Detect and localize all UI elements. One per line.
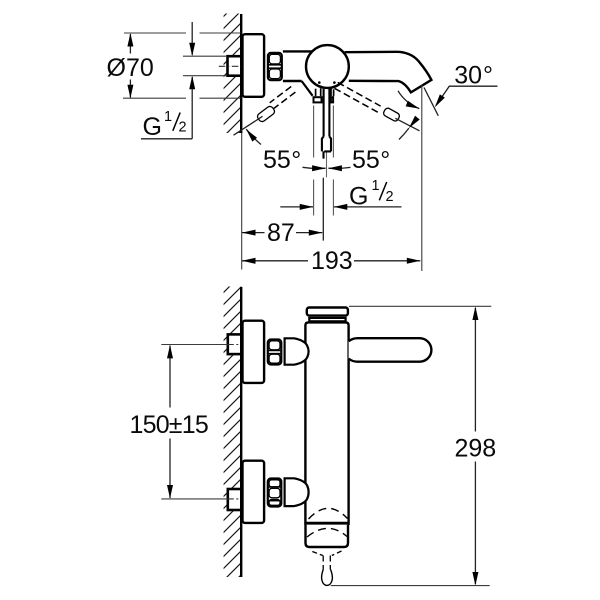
svg-text:193: 193: [311, 247, 353, 275]
pipe edge extension lines: [183, 55, 227, 57]
wall flange top (front view): [243, 321, 265, 383]
svg-text:2: 2: [386, 189, 394, 205]
body/outlet centerline down to 87 dim: [322, 178, 324, 241]
supply pipe bottom (front view): [228, 489, 242, 510]
193 dimension: [242, 247, 420, 275]
lever centerline: [326, 153, 328, 178]
faucet body (top view): [283, 51, 313, 95]
svg-text:87: 87: [267, 219, 295, 247]
svg-text:150±15: 150±15: [130, 411, 208, 439]
svg-text:Ø70: Ø70: [107, 54, 154, 82]
right lever axis extension: [395, 118, 419, 131]
cap lower band: [309, 318, 345, 321]
water drop: [322, 570, 333, 586]
dashed lever rotated right 55deg: [335, 82, 401, 122]
outlet joint thick line: [305, 522, 349, 525]
svg-text:G: G: [143, 113, 162, 141]
outlet extension lines (G 1/2 bottom outlet): [314, 106, 334, 216]
union bell bottom: [285, 478, 309, 506]
wall (hatched) top view: [224, 14, 242, 134]
55deg arc right with arrows: [328, 116, 419, 171]
svg-text:55: 55: [263, 146, 291, 174]
pipe centerline bottom: [227, 498, 241, 500]
svg-text:30: 30: [454, 62, 482, 90]
wall face extension line (to 87/193 dims): [241, 133, 243, 270]
union nut (top view): [267, 53, 282, 80]
87 dimension: [242, 219, 322, 247]
wall flange bottom (front view): [243, 461, 265, 523]
svg-text:°: °: [291, 146, 301, 174]
30deg annotation at spout: [398, 62, 498, 272]
svg-text:55: 55: [352, 146, 380, 174]
lever cap circle: [306, 45, 349, 88]
union bell top: [285, 338, 309, 364]
supply pipe top (front view): [228, 334, 242, 354]
union nut top (front view): [267, 340, 282, 365]
55deg arc left with arrows: [244, 127, 326, 171]
150 +/- 15 dimension: [130, 345, 208, 499]
aerator shell: [306, 525, 349, 547]
wall flange (escutcheon) top view: [243, 34, 265, 97]
150 extension line bottom / centerline: [161, 498, 227, 500]
dashed dome inside shell: [307, 528, 347, 537]
wall (hatched) bottom view: [224, 287, 242, 578]
pipe centerline: [219, 65, 242, 67]
lever handle (front view): [349, 338, 432, 362]
body (front view): [305, 322, 348, 525]
svg-text:G: G: [349, 182, 368, 210]
svg-text:298: 298: [455, 435, 497, 463]
dashed lever rotated left 55deg: [256, 87, 295, 123]
pivot dots: [318, 81, 321, 84]
water stream dashes: [323, 556, 330, 570]
svg-text:°: °: [483, 62, 493, 90]
svg-text:2: 2: [179, 120, 187, 136]
union nut bottom (front view): [267, 479, 282, 507]
lever handle (vertical position): [322, 89, 331, 159]
svg-text:1: 1: [164, 109, 172, 125]
G 1/2 label (outlet, top view): [280, 178, 401, 210]
150 extension line top / centerline: [161, 344, 227, 346]
svg-text:1: 1: [372, 178, 380, 194]
pipe centerline top: [227, 344, 241, 346]
298 dimension: [331, 306, 497, 585]
left lever axis extension: [234, 116, 263, 135]
spout (top view): [345, 52, 432, 93]
svg-text:°: °: [380, 146, 390, 174]
mousseur dashed: [312, 551, 341, 556]
supply pipe stub (top view, behind wall): [228, 56, 242, 75]
cartridge collar: [314, 97, 334, 102]
dia 70 dimension: [107, 33, 241, 98]
G 1/2 dimension (supply pipe, top view): [141, 22, 195, 141]
cartridge stem below circle: [316, 88, 334, 96]
cap (front view): [307, 308, 348, 316]
dashed internal dome above outlet joint: [309, 508, 348, 519]
